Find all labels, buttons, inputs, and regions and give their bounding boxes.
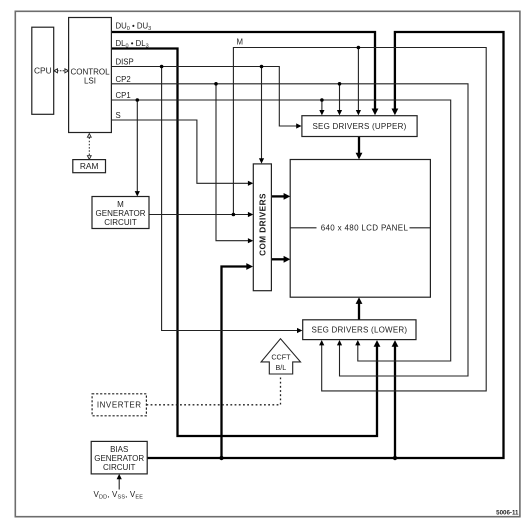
junction DISP / SEG lower branch xyxy=(160,65,164,69)
arrowhead bias into COM drivers xyxy=(246,263,253,270)
svg-text:SEG DRIVERS (UPPER): SEG DRIVERS (UPPER) xyxy=(313,122,407,131)
arrowhead CP2 into SEG upper top xyxy=(337,110,342,115)
arrowhead VDD VSS VEE into BIAS bottom xyxy=(117,474,122,479)
INVERTER box (dashed) xyxy=(92,394,146,416)
svg-text:COM DRIVERS: COM DRIVERS xyxy=(258,193,267,256)
svg-text:VDD, VSS, VEE: VDD, VSS, VEE xyxy=(94,490,144,501)
arrowhead DU into SEG upper xyxy=(372,109,379,116)
wire CP1: LSI right, around right side into SEG DRIVERS (LOWER) bottom xyxy=(111,100,450,361)
wire CP1 branch down to M GENERATOR CIRCUIT top xyxy=(136,100,138,193)
wire S: LSI right, down, into COM DRIVERS left xyxy=(111,120,248,183)
arrowhead bias into SEG lower xyxy=(392,340,399,347)
junction DISP / COM top branch xyxy=(260,65,264,69)
svg-text:M: M xyxy=(237,38,244,47)
arrowhead CP1 into SEG upper top xyxy=(319,110,324,115)
arrowhead DL into SEG lower xyxy=(374,340,381,347)
wire CP2: LSI right, around right side into SEG DRIVERS (LOWER) bottom xyxy=(111,84,468,376)
arrowhead hollow CPU link right xyxy=(65,69,69,73)
wire DISP branch down to COM DRIVERS top xyxy=(261,67,263,160)
svg-text:S: S xyxy=(116,111,121,120)
svg-text:BIAS: BIAS xyxy=(110,445,128,454)
arrowhead CP2 into COM left xyxy=(248,238,253,243)
svg-text:GENERATOR: GENERATOR xyxy=(94,454,144,463)
svg-text:CCFT: CCFT xyxy=(271,352,291,361)
SEG DRIVERS (LOWER) box xyxy=(303,320,416,340)
wire bias branch up into SEG DRIVERS (LOWER) bottom xyxy=(394,345,396,458)
svg-text:DISP: DISP xyxy=(116,58,134,67)
SEG DRIVERS (UPPER) box xyxy=(302,116,417,137)
arrowhead hollow RAM link bottom xyxy=(87,156,91,160)
junction CP2 / COM branch xyxy=(214,82,218,86)
LCD panel divider right xyxy=(410,227,431,229)
arrowhead DISP into SEG upper left xyxy=(296,123,301,128)
BIAS GENERATOR CIRCUIT box xyxy=(91,441,147,474)
wire dashed CPU to CONTROL LSI link xyxy=(57,70,66,72)
wire COM DRIVERS to LCD panel (upper) xyxy=(271,195,285,197)
svg-text:INVERTER: INVERTER xyxy=(97,401,142,410)
RAM box xyxy=(73,160,106,173)
M GENERATOR CIRCUIT box xyxy=(92,197,149,229)
svg-text:CONTROL: CONTROL xyxy=(70,68,110,77)
wire M branch up and around right side into SEG DRIVERS (LOWER) bottom xyxy=(233,48,486,391)
arrowhead hollow CPU link left xyxy=(54,69,58,73)
svg-text:DL0 • DL3: DL0 • DL3 xyxy=(116,39,149,50)
wire bias branch up to COM DRIVERS left xyxy=(222,267,249,459)
svg-text:CP1: CP1 xyxy=(116,91,131,100)
CPU box xyxy=(32,27,54,114)
arrowhead S into COM left xyxy=(248,181,253,186)
CCFT B/L arrow symbol xyxy=(261,339,300,374)
wire bias/power: BIAS right, along bottom, up right side, along top, down into SEG DRIVERS (UPPER) xyxy=(147,32,503,458)
svg-text:5006-11: 5006-11 xyxy=(496,510,519,517)
wire M branch down into SEG DRIVERS (UPPER) top xyxy=(357,48,359,112)
svg-text:CIRCUIT: CIRCUIT xyxy=(104,218,137,227)
CONTROL LSI box xyxy=(69,18,112,133)
svg-text:CP2: CP2 xyxy=(116,75,131,84)
wire DISP branch down left to SEG DRIVERS (LOWER) left xyxy=(162,67,299,331)
arrowhead SEG upper to panel xyxy=(356,153,363,160)
svg-text:RAM: RAM xyxy=(80,161,99,171)
arrowhead SEG lower to panel xyxy=(356,297,363,304)
wire VDD VSS VEE input into BIAS GENERATOR bottom xyxy=(118,478,120,490)
junction M / SEG upper branch xyxy=(357,46,361,50)
wire COM DRIVERS to LCD panel (lower) xyxy=(271,258,285,260)
junction M / COM branch xyxy=(232,213,236,217)
svg-text:GENERATOR: GENERATOR xyxy=(96,209,146,218)
junction bias / SEG lower branch xyxy=(393,456,397,460)
arrowhead M into SEG lower bottom xyxy=(319,340,324,345)
arrowhead CP2 into SEG lower bottom xyxy=(337,340,342,345)
svg-text:DU0 • DU3: DU0 • DU3 xyxy=(116,22,152,33)
wire DU bus: LSI right to SEG DRIVERS (UPPER) top xyxy=(111,32,375,110)
svg-text:B/L: B/L xyxy=(276,363,287,372)
wire SEG DRIVERS (LOWER) to LCD panel xyxy=(358,302,360,320)
wire SEG DRIVERS (UPPER) to LCD panel xyxy=(358,137,360,156)
svg-text:CPU: CPU xyxy=(34,66,52,76)
junction CP1 / M generator branch xyxy=(136,98,140,102)
arrowhead CP1 into M generator top xyxy=(135,191,140,196)
arrowhead COM to panel lower xyxy=(284,256,291,263)
LCD panel box xyxy=(290,160,430,298)
junction bias / COM branch xyxy=(219,456,223,460)
junction CP1 / SEG upper branch xyxy=(320,98,324,102)
arrowhead COM to panel upper xyxy=(284,193,291,200)
svg-text:LSI: LSI xyxy=(84,77,96,86)
arrowhead DISP into COM top xyxy=(259,158,264,163)
arrowhead hollow RAM link top xyxy=(87,134,91,138)
wire M: M GENERATOR right to COM DRIVERS left xyxy=(149,214,249,216)
svg-text:SEG DRIVERS (LOWER): SEG DRIVERS (LOWER) xyxy=(312,326,408,335)
LCD panel divider left xyxy=(290,227,316,229)
wire CP2 branch down into SEG DRIVERS (UPPER) top xyxy=(339,84,341,111)
wire dashed LSI to RAM link xyxy=(88,138,90,156)
wire CP2 branch down to COM DRIVERS left xyxy=(216,84,249,241)
arrowhead power into SEG upper xyxy=(392,109,399,116)
COM DRIVERS box xyxy=(253,164,271,291)
arrowhead M into COM left xyxy=(248,212,253,217)
arrowhead M into SEG upper top xyxy=(356,110,361,115)
wire CP1 branch down into SEG DRIVERS (UPPER) top xyxy=(321,100,323,111)
svg-text:M: M xyxy=(117,200,124,209)
svg-text:CIRCUIT: CIRCUIT xyxy=(103,463,136,472)
wire dotted INVERTER to CCFT B/L xyxy=(146,378,280,405)
wire DISP: LSI right, corner down to SEG DRIVERS (UPPER) left xyxy=(111,67,297,127)
svg-text:640 x 480 LCD PANEL: 640 x 480 LCD PANEL xyxy=(321,224,409,233)
arrowhead CP1 into SEG lower bottom xyxy=(355,340,360,345)
wire DL bus: LSI right, down left side, along bottom, up into SEG DRIVERS (LOWER) xyxy=(111,49,377,437)
junction CP2 / SEG upper branch xyxy=(338,82,342,86)
arrowhead DISP into SEG lower left xyxy=(297,328,302,333)
